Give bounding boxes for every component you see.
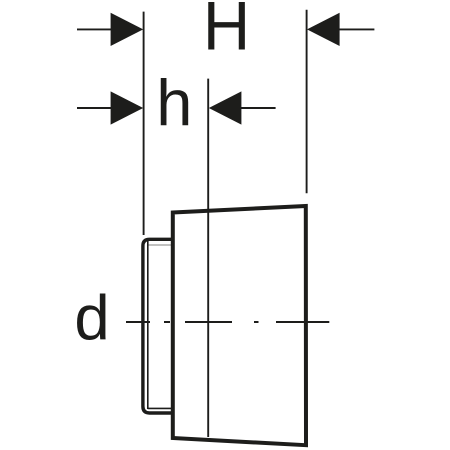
svg-text:h: h (156, 66, 192, 139)
svg-text:H: H (203, 0, 250, 65)
svg-text:d: d (74, 283, 109, 353)
